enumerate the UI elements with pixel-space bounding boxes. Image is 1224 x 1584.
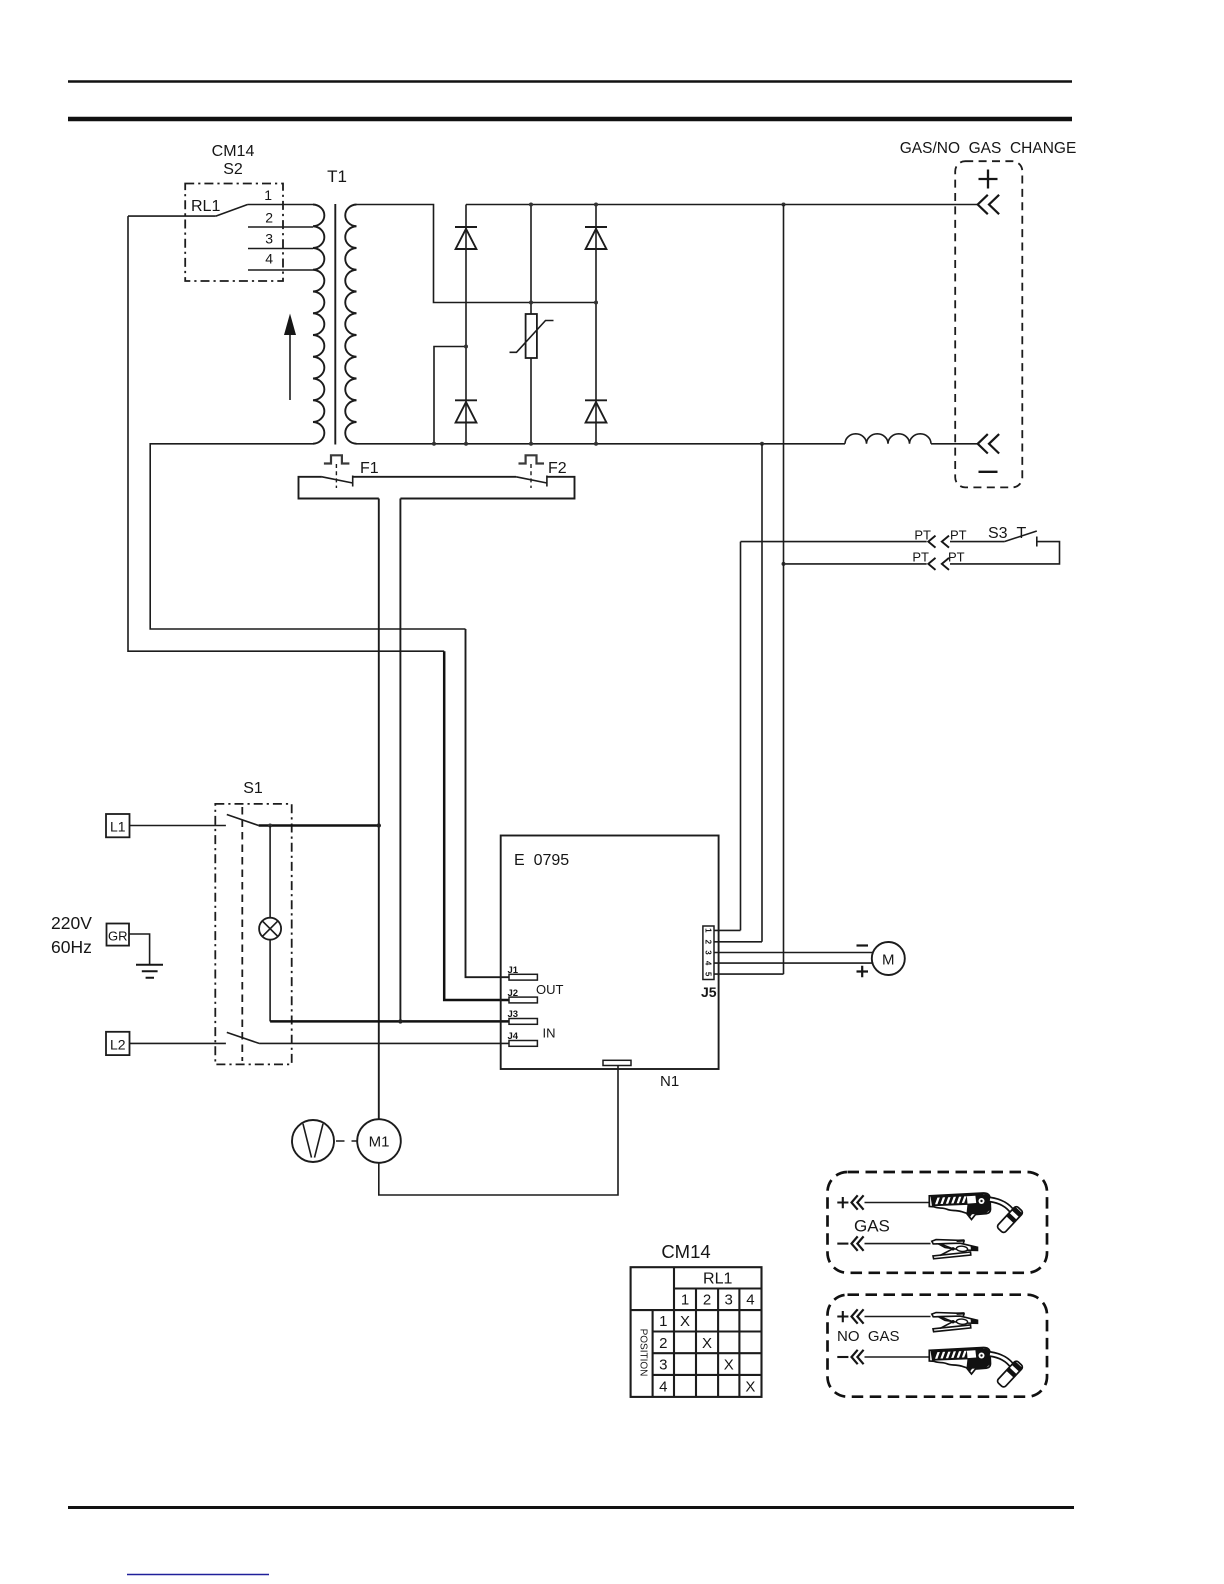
svg-text:GAS/NO GAS CHANGE: GAS/NO GAS CHANGE [900, 140, 1077, 157]
wire RL1 contact 3 to T1 tap 3 [248, 248, 313, 250]
wire lamp branch upper [269, 826, 271, 918]
wire S3 right loop [950, 542, 1060, 564]
svg-text:T1: T1 [327, 167, 347, 186]
wire RL1 contact 4 to T1 tap 4 [248, 269, 313, 271]
svg-text:S2: S2 [223, 161, 243, 178]
switch S1 upper blade [227, 815, 259, 826]
fuse bar plate outline [299, 477, 575, 499]
svg-text:RL1: RL1 [191, 198, 220, 215]
junction node top bus / J5-5 drop [782, 203, 786, 207]
junction node column 1 / secondary link [464, 345, 468, 349]
svg-text:GAS: GAS [854, 1217, 890, 1236]
indicator lamp [259, 918, 281, 940]
fuse F2 symbol [519, 455, 545, 463]
arrow adjustment indicator on T1 [289, 331, 291, 400]
mechanical link dashes [336, 1140, 358, 1142]
welding torch NO GAS [929, 1348, 1023, 1389]
junction node mid link / varistor [529, 301, 533, 305]
svg-text:PT: PT [914, 528, 931, 543]
junction node bottom bus / varistor [529, 442, 533, 446]
svg-text:PT: PT [950, 528, 967, 543]
svg-text:X: X [724, 1357, 734, 1374]
fuse F1 blade [322, 476, 353, 487]
minus arrow GAS [837, 1243, 848, 1245]
junction node lamp branch [268, 824, 272, 828]
wire secondary bottom link to column 1 [434, 347, 466, 444]
svg-text:J1: J1 [508, 965, 519, 976]
connector J4 [509, 1041, 537, 1047]
svg-text:F1: F1 [360, 460, 379, 477]
svg-text:2: 2 [659, 1335, 667, 1352]
junction node mid link / column 2 [594, 301, 598, 305]
svg-text:3: 3 [265, 231, 273, 247]
junction node top bus / varistor column [529, 203, 533, 207]
svg-text:J5: J5 [701, 984, 717, 1000]
wire L2 to switch [130, 1042, 226, 1044]
svg-text:S3 T: S3 T [988, 525, 1026, 542]
svg-text:PT: PT [948, 550, 965, 565]
torch pictogram enclosure NO GAS [828, 1295, 1048, 1397]
svg-text:3: 3 [703, 950, 712, 955]
wire varistor column [530, 205, 532, 444]
junction node L1 output / vertical A [377, 823, 381, 827]
svg-text:M: M [882, 952, 895, 969]
diode D1 [455, 227, 477, 249]
svg-text:S1: S1 [243, 780, 263, 797]
wire J5 pin3 to motor [714, 952, 873, 954]
junction node bottom bus / column 1 [464, 442, 468, 446]
connector J1 [509, 974, 537, 980]
torch connector dashed enclosure [955, 161, 1022, 487]
svg-text:2: 2 [265, 210, 273, 226]
plus arrow NO GAS [837, 1311, 848, 1322]
wire J5 pin1 riser [740, 542, 742, 931]
diode D3 [455, 400, 477, 422]
wire J4 net [259, 1042, 509, 1044]
svg-text:1: 1 [264, 187, 272, 203]
motor M wire feed [872, 942, 905, 975]
wire J3 net [270, 1020, 509, 1023]
svg-text:2: 2 [703, 940, 712, 945]
svg-text:J2: J2 [508, 988, 519, 999]
wire primary bottom feeder to J1 [150, 444, 465, 629]
svg-text:1: 1 [703, 928, 712, 933]
output choke inductor [845, 434, 931, 444]
earth clamp NO GAS [932, 1312, 978, 1332]
varistor RV1 [526, 314, 537, 358]
svg-text:60Hz: 60Hz [51, 937, 92, 957]
wire J5 pin2 riser [761, 444, 763, 942]
svg-text:220V: 220V [51, 913, 92, 933]
svg-text:GR: GR [108, 929, 128, 944]
wire top DC bus [466, 204, 978, 206]
chevron socket minus output [978, 434, 999, 453]
wire lower PT line [784, 563, 927, 565]
switch S1 inner dashed link [241, 807, 243, 1061]
wire J5 pin2 [714, 941, 762, 943]
wire upper PT line [741, 541, 927, 543]
fan motor M1 [357, 1119, 401, 1163]
svg-text:2: 2 [703, 1292, 711, 1309]
svg-text:L2: L2 [110, 1036, 126, 1052]
junction node J3 net / vertical B [398, 1019, 402, 1023]
minus terminal symbol [979, 471, 998, 473]
svg-text:N1: N1 [660, 1073, 679, 1090]
svg-text:X: X [745, 1378, 755, 1395]
wire L1 switched output [259, 824, 379, 827]
svg-text:POSITION: POSITION [638, 1329, 649, 1377]
junction node lower PT / J5-5 drop [782, 562, 786, 566]
svg-text:CM14: CM14 [212, 143, 255, 160]
svg-text:J4: J4 [508, 1031, 519, 1042]
ground symbol [136, 965, 163, 978]
svg-text:1: 1 [681, 1292, 689, 1309]
svg-text:IN: IN [543, 1026, 556, 1041]
svg-text:PT: PT [912, 550, 929, 565]
svg-text:F2: F2 [548, 460, 567, 477]
fuse F1 symbol [324, 455, 350, 463]
wire vertical B plate to J3 net [399, 499, 401, 1022]
connector J5 pin digits [703, 928, 712, 977]
table header digits [681, 1292, 755, 1309]
connector J2 [509, 997, 537, 1003]
svg-text:E 0795: E 0795 [514, 852, 569, 869]
fan symbol [292, 1120, 334, 1162]
wire J5 pin5 [714, 973, 784, 975]
chevron socket plus output [978, 195, 999, 214]
minus arrow NO GAS [837, 1356, 848, 1358]
wire fan motor loop to N1 tab [379, 1066, 618, 1196]
label minus at motor [857, 944, 869, 946]
wire RL1 contact 1 to T1 tap 1 [248, 204, 313, 206]
svg-text:3: 3 [725, 1292, 733, 1309]
torch pictogram enclosure GAS [828, 1172, 1048, 1273]
label plus at motor [857, 966, 869, 977]
wire GR to ground [129, 934, 150, 965]
junction node bottom bus / J5-2 drop [760, 442, 764, 446]
wire J5 pin4 to motor [714, 962, 873, 964]
relay RL1 enclosure (dash-dot box) [185, 184, 283, 282]
transformer T1 secondary winding [345, 205, 356, 444]
plus terminal symbol [979, 170, 998, 189]
junction node bottom bus / column 2 [594, 442, 598, 446]
wire J5 pin5 riser [783, 205, 785, 975]
welding torch GAS [929, 1193, 1023, 1234]
thermal switch S3 blade [1004, 531, 1037, 547]
wire bottom DC bus [357, 443, 846, 445]
wire vertical A plate to fan motor M1 [378, 499, 380, 1120]
svg-text:4: 4 [703, 961, 712, 966]
svg-text:X: X [680, 1313, 690, 1330]
wire lamp branch lower to J3 [269, 940, 271, 1022]
terminal L1 box [106, 814, 130, 837]
svg-text:J3: J3 [508, 1009, 519, 1020]
svg-text:3: 3 [659, 1357, 667, 1374]
svg-text:4: 4 [265, 251, 273, 267]
svg-text:L1: L1 [110, 819, 126, 835]
control board N1 box [501, 836, 719, 1070]
terminal GR box [107, 924, 130, 946]
earth clamp GAS [932, 1239, 978, 1259]
svg-text:1: 1 [659, 1313, 667, 1330]
diode D4 [585, 400, 607, 422]
svg-text:4: 4 [659, 1378, 667, 1395]
wire RL1 contact 2 to T1 tap 2 [248, 226, 313, 228]
connector J5 [703, 926, 714, 980]
svg-text:RL1: RL1 [703, 1271, 732, 1288]
terminal L2 box [106, 1032, 130, 1055]
wire RL1 common input [128, 215, 216, 217]
transformer T1 primary winding [313, 205, 324, 444]
chevron PT upper pair [928, 536, 949, 548]
svg-text:NO GAS: NO GAS [837, 1328, 900, 1345]
relay RL1 blade [216, 205, 248, 217]
svg-text:4: 4 [746, 1292, 754, 1309]
table CM14 grid [631, 1267, 762, 1397]
wire bridge column 1 [465, 205, 467, 444]
fuse F2 blade [516, 476, 547, 487]
junction node top bus / column 2 [594, 203, 598, 207]
transformer T1 core [334, 204, 336, 445]
chevron PT lower pair [928, 558, 949, 570]
wire RL1 common down-left feeder to J2 [128, 216, 444, 651]
plus arrow GAS [837, 1197, 848, 1208]
connector J3 [509, 1019, 537, 1025]
svg-text:X: X [702, 1335, 712, 1352]
table row digits [659, 1313, 667, 1395]
wire L1 to switch [130, 825, 226, 827]
wire J5 pin1 [714, 929, 741, 931]
svg-text:OUT: OUT [536, 982, 564, 997]
connector N1 bottom tab [603, 1060, 631, 1065]
switch S1 lower blade [227, 1032, 259, 1043]
wire bridge column 2 [595, 205, 597, 444]
wire secondary top to bridge [357, 205, 597, 303]
svg-text:CM14: CM14 [661, 1241, 710, 1262]
diode D2 [585, 227, 607, 249]
svg-text:5: 5 [703, 972, 712, 977]
switch S1 enclosure dash-dot box [215, 804, 291, 1065]
table X marks [680, 1313, 755, 1395]
junction node bottom bus / secondary link [432, 442, 436, 446]
svg-text:M1: M1 [369, 1134, 390, 1151]
